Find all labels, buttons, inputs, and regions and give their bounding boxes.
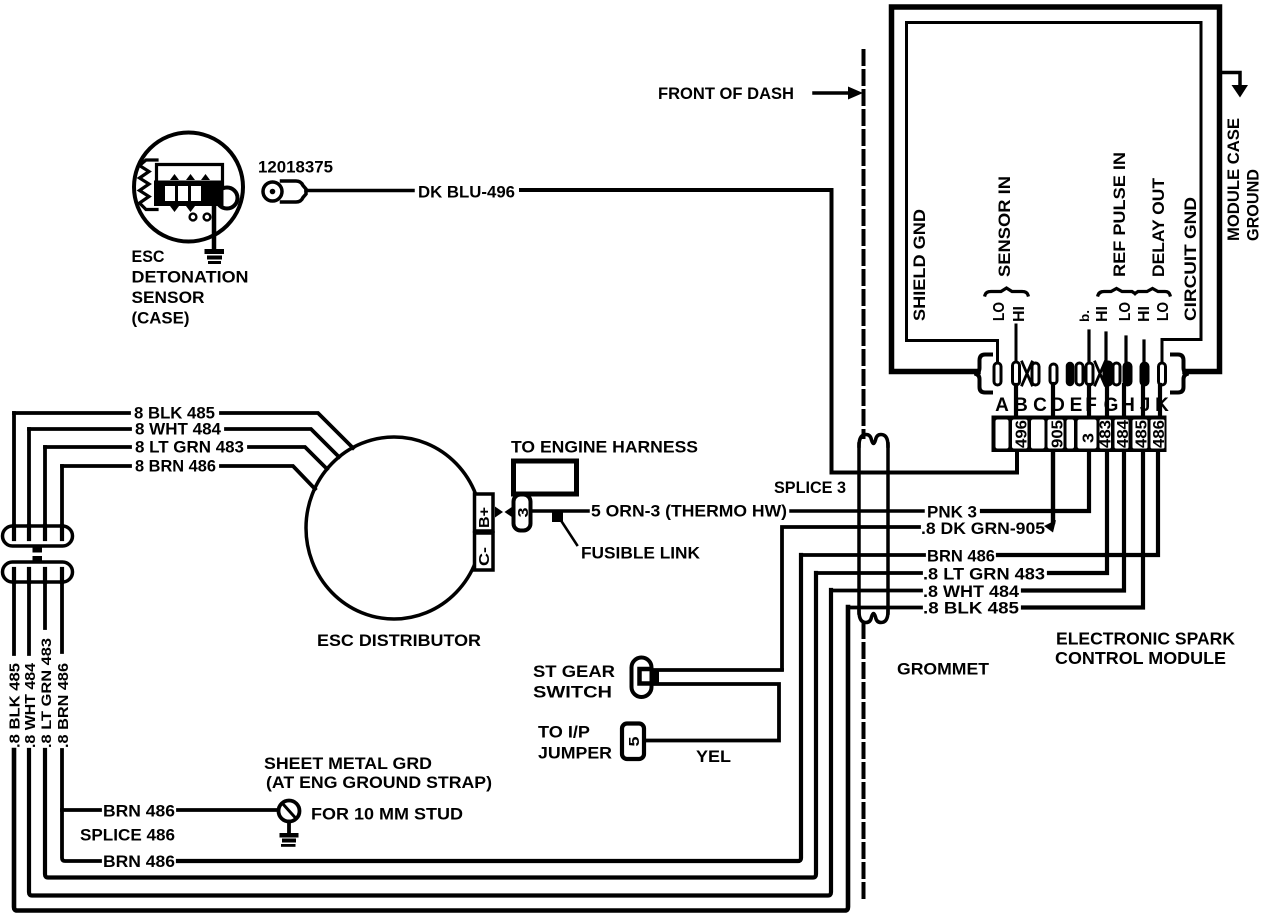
wire pin H to circuit 484 [1122, 385, 1126, 417]
wire .8 LT GRN 483 right segment to pin G circuit [1049, 452, 1107, 573]
svg-text:SWITCH: SWITCH [533, 683, 612, 702]
module case ground arrowhead [1232, 85, 1249, 98]
module case ground lead [1220, 73, 1241, 86]
wire DK BLU-496 run to splice [521, 190, 1017, 473]
svg-text:LO: LO [1155, 302, 1172, 321]
svg-text:BRN 486: BRN 486 [103, 802, 175, 821]
svg-text:b.: b. [1077, 310, 1092, 322]
svg-text:CIRCUIT GND: CIRCUIT GND [1181, 197, 1200, 321]
sensor ground symbol [205, 249, 225, 264]
svg-text:A: A [995, 395, 1009, 416]
mating arrows between B+ and connector 3 [495, 507, 503, 518]
wire BRN 486 bottom run to grommet riser [178, 555, 801, 861]
wire delay HI to pin H [1124, 337, 1127, 362]
pin D [1050, 364, 1057, 384]
wire pin B to circuit 496 [1014, 385, 1018, 417]
svg-text:.8 DK GRN-905: .8 DK GRN-905 [921, 519, 1045, 538]
connector 3 shell [514, 495, 531, 531]
wire ref LO to pin G [1104, 333, 1107, 362]
ST gear switch terminal block [651, 672, 660, 685]
svg-text:12018375: 12018375 [258, 158, 333, 177]
fusible link pointer [560, 519, 577, 545]
svg-text:SPLICE 3: SPLICE 3 [774, 478, 846, 497]
sensor threaded shank (zigzag comb) [140, 160, 158, 210]
connector 12018375 center dot [270, 189, 276, 195]
svg-text:.8 BLK 485: .8 BLK 485 [923, 599, 1019, 618]
svg-text:905: 905 [1050, 420, 1067, 448]
wire pin D to circuit 905 [1051, 384, 1055, 417]
connector 12018375 body [282, 181, 307, 202]
sensor output eyelet circle [217, 188, 238, 209]
wire 5 ORN-3 lead [531, 509, 589, 513]
wire delay LO to pin J [1142, 341, 1145, 362]
sensor ground lead [212, 206, 217, 249]
wire drop BLK 485 to connector [12, 413, 16, 527]
svg-text:DK BLU-496: DK BLU-496 [418, 183, 515, 202]
wire BRN 486 bottom run (left stub) [62, 750, 100, 861]
svg-text:484: 484 [1115, 420, 1132, 448]
svg-text:8 LT GRN 483: 8 LT GRN 483 [135, 438, 244, 457]
ESC module outer case [892, 7, 1220, 372]
svg-text:.8 BRN 486: .8 BRN 486 [55, 663, 72, 748]
wire 8 LT GRN 483 label line [45, 445, 130, 449]
svg-text:TO ENGINE HARNESS: TO ENGINE HARNESS [511, 438, 698, 457]
svg-text:8 WHT 484: 8 WHT 484 [135, 420, 222, 439]
connector shell left brace [975, 355, 992, 393]
pin G mate [1113, 363, 1120, 385]
sensor terminal body (black band) [154, 181, 222, 207]
ground symbol under stud [280, 833, 299, 847]
label MODULE CASE GROUND (rotated) [1224, 118, 1263, 241]
wire DK BLU-496 lead from connector [306, 189, 413, 193]
ESC detonation sensor case (circle) [134, 133, 243, 242]
svg-text:ESC DISTRIBUTOR: ESC DISTRIBUTOR [317, 631, 481, 650]
svg-text:FOR 10 MM STUD: FOR 10 MM STUD [311, 805, 463, 824]
wire sensor HI to pin B [1015, 325, 1018, 362]
pin F noise mark [1095, 362, 1105, 385]
svg-text:REF PULSE IN: REF PULSE IN [1110, 152, 1129, 277]
wire 8 BRN 486 to distributor [221, 466, 315, 489]
wire drop LT GRN 483 to connector [43, 447, 47, 527]
svg-text:SPLICE 486: SPLICE 486 [80, 826, 175, 845]
fusible link block [552, 511, 563, 522]
wire .8 WHT 484 left segment [831, 589, 921, 593]
sensor terminal white cavities [165, 186, 201, 201]
front of dash line (dashed, upper) [862, 51, 866, 437]
svg-text:FRONT OF DASH: FRONT OF DASH [658, 84, 794, 103]
wire .8 BLK 485 right segment to pin J circuit [1023, 452, 1143, 608]
svg-text:C: C [1033, 395, 1047, 416]
svg-text:GROMMET: GROMMET [897, 660, 990, 679]
pin J [1141, 363, 1148, 385]
wire PNK 3 right segment to pin F circuit [982, 452, 1089, 511]
svg-text:K: K [1155, 395, 1169, 416]
svg-text:5: 5 [626, 737, 643, 747]
wire pin K to circuit 486 [1158, 385, 1162, 417]
wire BLK 485 bottom run [14, 607, 848, 911]
wire .8 BRN 486 below connector [60, 582, 64, 652]
wire BRN 486 right segment to pin K circuit [998, 452, 1158, 555]
svg-text:483: 483 [1098, 420, 1115, 448]
wire .8 WHT 484 below connector [27, 582, 31, 654]
svg-text:.8 LT GRN 483: .8 LT GRN 483 [39, 637, 54, 748]
svg-text:GROUND: GROUND [1244, 169, 1263, 241]
svg-text:E: E [1070, 395, 1083, 416]
svg-text:BRN 486: BRN 486 [103, 852, 175, 871]
wire 8 WHT 484 to distributor [226, 429, 339, 457]
svg-text:MODULE CASE: MODULE CASE [1224, 118, 1243, 241]
svg-text:3: 3 [1081, 433, 1098, 443]
pin G [1104, 362, 1112, 385]
pin E [1067, 363, 1073, 385]
svg-text:.8 WHT 484: .8 WHT 484 [22, 662, 39, 748]
brace under SENSOR IN [985, 288, 1028, 295]
distributor B+ terminal box [475, 494, 494, 531]
svg-text:ESC: ESC [132, 247, 165, 266]
svg-text:BRN 486: BRN 486 [927, 547, 995, 566]
wire .8 LT GRN 483 left segment [816, 571, 921, 575]
wire 8 LT GRN 483 to distributor [249, 447, 327, 469]
label ESC DETONATION SENSOR (CASE) [132, 247, 249, 328]
wire 8 BLK 485 label line [14, 411, 129, 415]
svg-text:FUSIBLE LINK: FUSIBLE LINK [581, 544, 701, 563]
svg-text:8 BRN 486: 8 BRN 486 [135, 457, 216, 476]
svg-text:HI: HI [1136, 306, 1153, 322]
wire LT GRN 483 bottom run [45, 573, 816, 878]
svg-text:(CASE): (CASE) [132, 309, 190, 328]
svg-text:496: 496 [1014, 420, 1031, 448]
svg-text:SHIELD GND: SHIELD GND [910, 209, 929, 321]
label SHEET METAL GRD (AT ENG GROUND STRAP) [264, 754, 492, 792]
svg-text:YEL: YEL [696, 747, 731, 766]
svg-text:DETONATION: DETONATION [132, 268, 249, 287]
front of dash line (dashed, lower) [862, 624, 866, 897]
pin H [1124, 363, 1131, 385]
svg-text:5 ORN-3 (THERMO HW): 5 ORN-3 (THERMO HW) [591, 502, 787, 521]
brace under DELAY OUT [1135, 289, 1170, 296]
arrowhead 905 wire [1044, 520, 1056, 533]
wire .8 BLK 485 below connector [12, 582, 16, 654]
svg-text:.8 BLK 485: .8 BLK 485 [7, 663, 24, 748]
inline connector upper shell [3, 526, 73, 546]
svg-text:SENSOR IN: SENSOR IN [995, 176, 1014, 277]
connector shell right brace [1172, 355, 1189, 393]
wire BRN 486 to ground stud (left stub) [62, 808, 100, 812]
lower connector pin stubs [14, 569, 62, 582]
circuit cells (white windows) [996, 420, 1165, 449]
ground stud (bolt circle) [279, 801, 300, 822]
wire .8 DK GRN-905 left segment [782, 527, 919, 669]
svg-text:.8 LT GRN 483: .8 LT GRN 483 [923, 565, 1045, 584]
sensor pin marks above band [170, 174, 210, 212]
wire .8 LT GRN 483 below connector [43, 582, 47, 628]
ground stud stem [287, 822, 291, 835]
connector 12018375 eyelet [263, 182, 282, 201]
front of dash arrow [814, 91, 849, 95]
upper connector pin stubs [14, 526, 62, 539]
inline connector lower shell [3, 562, 73, 582]
ST gear switch connector [632, 658, 652, 698]
wire drop WHT 484 to connector [27, 429, 31, 527]
wire .8 BLK 485 left segment [848, 606, 921, 610]
sensor internal top loop wire [157, 165, 223, 188]
wire ST gear switch upper lead [652, 668, 782, 672]
pin letters A B C D E F G H J K [995, 395, 1169, 416]
wire ST gear switch lower lead to jumper [647, 684, 779, 741]
grommet body [859, 435, 888, 623]
svg-text:JUMPER: JUMPER [538, 744, 612, 763]
svg-text:HI: HI [1011, 306, 1028, 322]
svg-text:HI: HI [1094, 306, 1111, 322]
svg-text:TO I/P: TO I/P [538, 723, 590, 742]
ESC distributor body (circle) [306, 437, 482, 619]
pin K [1159, 363, 1166, 385]
svg-text:CONTROL MODULE: CONTROL MODULE [1055, 648, 1226, 668]
svg-text:C-: C- [476, 547, 493, 566]
wire 8 BLK 485 to distributor [221, 413, 353, 448]
sensor eyelet inner bar [221, 192, 224, 205]
wire BRN 486 left segment [801, 553, 924, 557]
pin F [1086, 363, 1093, 385]
pin B noise mark [1022, 362, 1032, 385]
pin C [1032, 363, 1039, 385]
svg-text:486: 486 [1151, 420, 1168, 448]
engine harness box [514, 461, 577, 494]
ESC module inner board outline [907, 23, 1202, 362]
wire 8 WHT 484 label line [29, 427, 130, 431]
wire 8 BRN 486 label line [62, 464, 130, 468]
wire pin D circuit 905 drop [1051, 452, 1055, 522]
label ST GEAR SWITCH [533, 662, 615, 702]
wire ref HI to pin F [1087, 331, 1090, 362]
brace under REF PULSE IN [1098, 289, 1135, 296]
sensor small lower circles [190, 214, 197, 221]
label TO I/P JUMPER [538, 723, 612, 763]
connector mating tabs [33, 546, 43, 553]
svg-text:(AT ENG GROUND STRAP): (AT ENG GROUND STRAP) [266, 773, 492, 792]
wire pin F to circuit 3 [1087, 385, 1091, 417]
ground stud slash [283, 804, 297, 819]
pin A [994, 363, 1001, 385]
wire PNK 3 left segment [791, 509, 923, 513]
wire pin G to circuit 483 [1105, 385, 1109, 417]
svg-text:LO: LO [1117, 302, 1134, 321]
circuit number strip body [992, 416, 1167, 453]
svg-text:DELAY OUT: DELAY OUT [1149, 177, 1168, 277]
ST gear switch contact (E-shape) [640, 669, 649, 684]
svg-text:ELECTRONIC SPARK: ELECTRONIC SPARK [1056, 629, 1235, 649]
wire BRN 486 to ground stud (right) [178, 808, 278, 812]
svg-text:LO: LO [991, 302, 1008, 321]
circuit numbers (rotated) [1014, 420, 1169, 448]
svg-text:SENSOR: SENSOR [132, 288, 205, 307]
TO I/P jumper connector [622, 724, 644, 760]
label ELECTRONIC SPARK CONTROL MODULE [1055, 629, 1235, 669]
wire drop BRN 486 to connector [60, 466, 64, 527]
svg-text:ST GEAR: ST GEAR [533, 662, 615, 681]
svg-text:485: 485 [1134, 420, 1151, 448]
wire WHT 484 bottom run [29, 590, 831, 896]
svg-text:SHEET METAL GRD: SHEET METAL GRD [264, 754, 432, 773]
wire .8 WHT 484 right segment to pin H circuit [1023, 452, 1124, 591]
svg-text:B+: B+ [476, 507, 493, 528]
distributor C- terminal box [475, 533, 494, 570]
pin B [1013, 362, 1020, 385]
pin E mate [1076, 363, 1083, 385]
wire pin J to circuit 485 [1141, 385, 1145, 417]
